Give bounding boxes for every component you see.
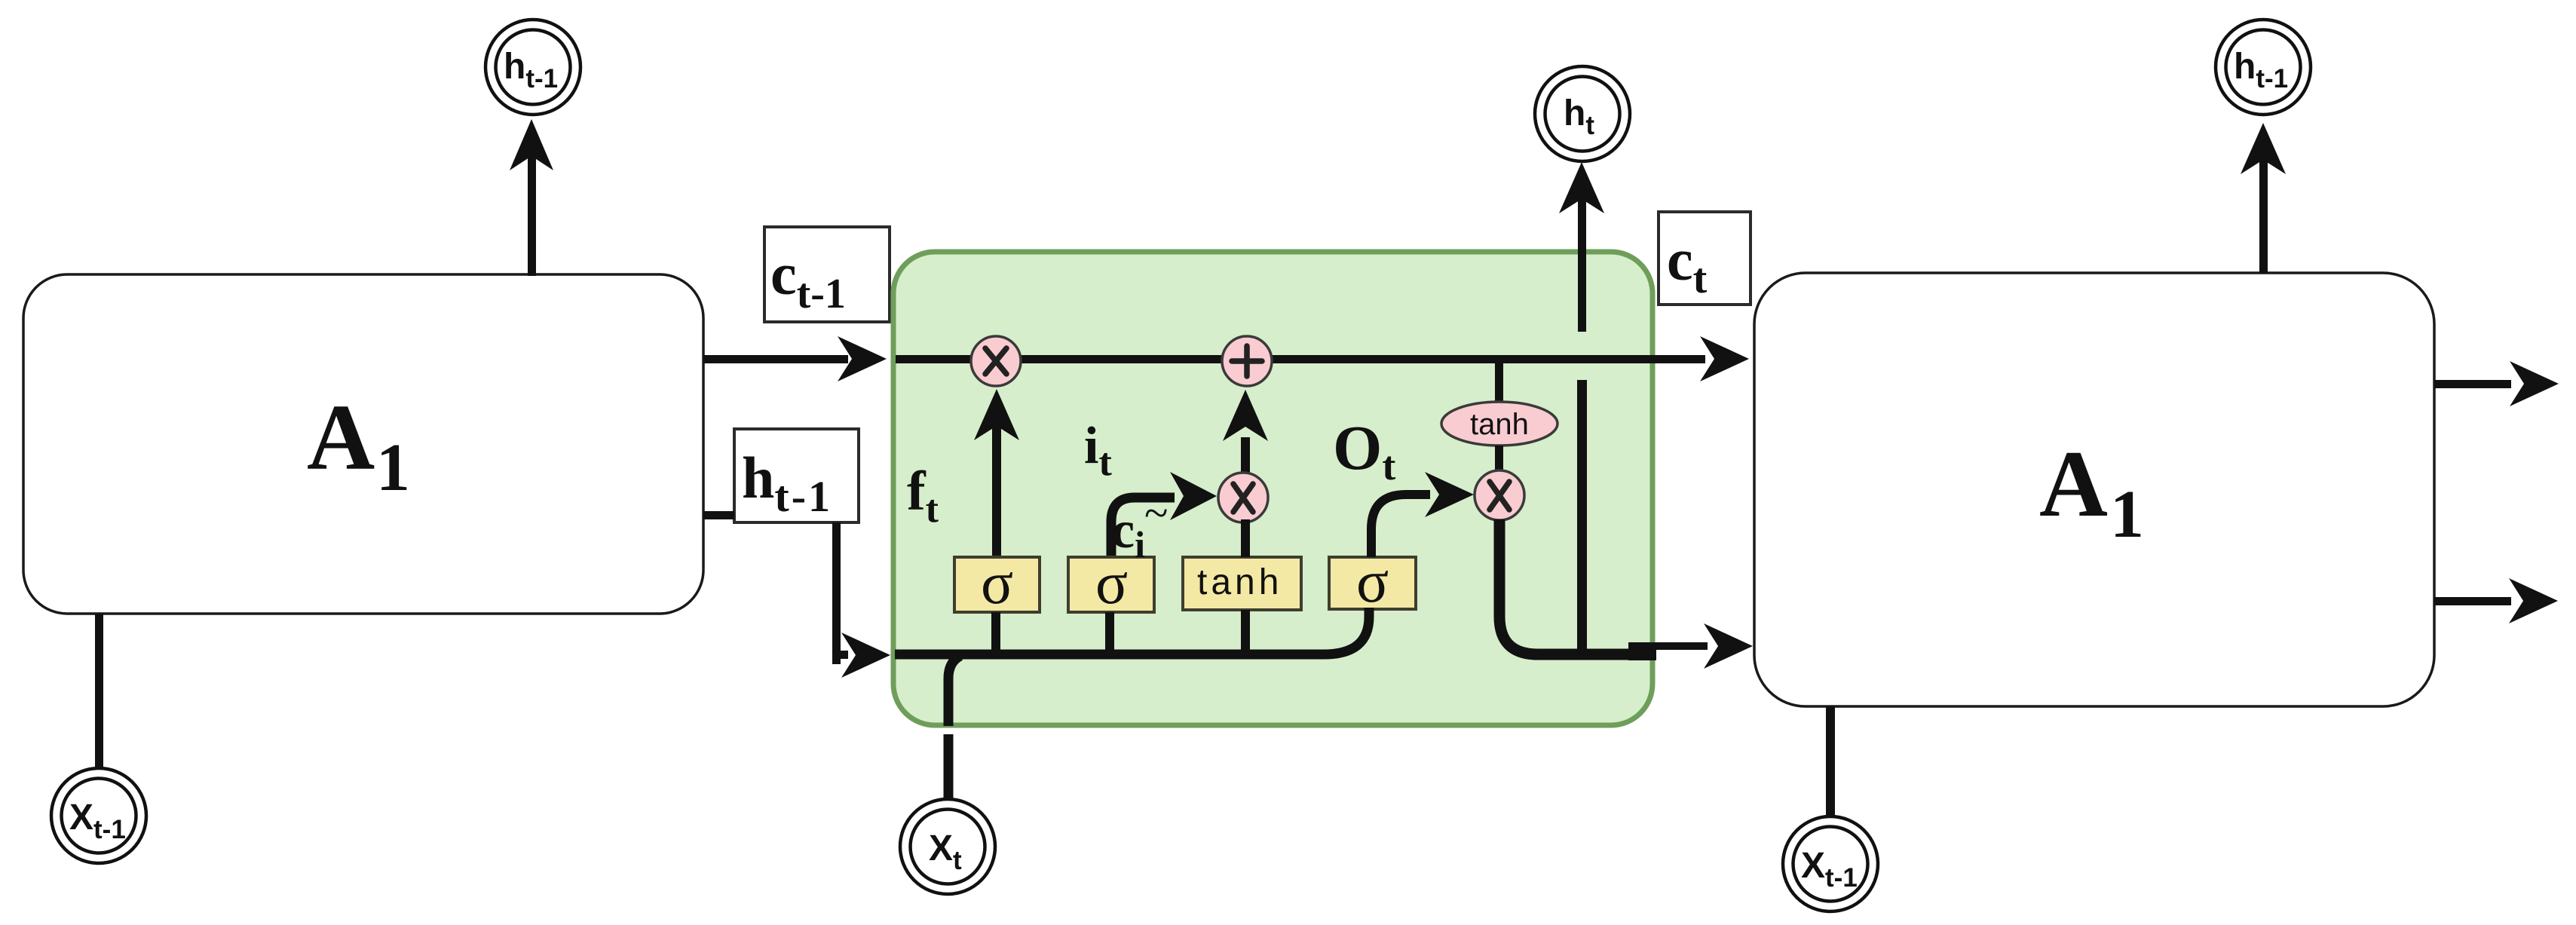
node h_t-1 circle (right top)	[2216, 20, 2311, 115]
wire stem below sigma1	[991, 612, 1000, 654]
gate sigma box 2	[1068, 550, 1154, 617]
wire bottom h path inside cell	[895, 608, 1369, 654]
label box c_t-1	[764, 227, 890, 322]
wire curve from sigma3 to multiply3 with arrow	[1371, 472, 1474, 557]
svg-text:tanh: tanh	[1197, 562, 1282, 602]
label c~_i	[1111, 489, 1168, 565]
node x_t-1 circle (right bottom)	[1783, 816, 1878, 911]
svg-text:σ: σ	[1356, 549, 1389, 615]
operator multiply circle 1	[971, 336, 1021, 386]
wire h output arrow into right block	[1628, 623, 1753, 669]
wire x_t-1 input (right block bottom)	[1826, 706, 1835, 816]
wire h_t branch up upper segment with arrow	[1559, 162, 1604, 332]
svg-text:1: 1	[376, 430, 410, 505]
gate tanh box	[1183, 557, 1301, 610]
wire output arrow right 1	[2434, 361, 2559, 406]
svg-text:σ: σ	[1095, 550, 1128, 617]
node h_t circle	[1535, 66, 1630, 161]
operator multiply circle 2	[1218, 473, 1268, 522]
wire arrow multiply2 to plus	[1223, 390, 1268, 475]
wire f_t arrow from sigma1 to multiply1	[974, 389, 1019, 558]
gate sigma box 3	[1329, 549, 1416, 615]
wire stub from left block to h_t-1 label	[703, 511, 734, 519]
wire h_t-1 output arrow (left block top)	[510, 119, 553, 276]
wire h_t-1 down and arrow into cell	[832, 522, 890, 678]
wire c_t-1 arrow into cell	[703, 336, 887, 381]
operator multiply circle 3	[1475, 470, 1524, 520]
wire x_t-1 input (left block bottom)	[95, 614, 103, 769]
node x_t circle	[900, 799, 995, 894]
svg-text:tanh: tanh	[1470, 408, 1529, 441]
wire multiply3 output down and right	[1499, 519, 1656, 654]
wire x_t branch down	[948, 656, 960, 726]
block A1 left	[23, 274, 703, 614]
wire stem c-line to tanh ellipse	[1495, 361, 1503, 403]
wire thick exit stub	[1628, 642, 1656, 660]
block A1 right	[1754, 273, 2434, 706]
label box c_t	[1659, 212, 1751, 305]
wire cell-state c line	[896, 336, 1749, 381]
wire curve from sigma2 to multiply2 with arrow	[1111, 472, 1217, 558]
wire h_t-1 output arrow (right block top)	[2241, 123, 2286, 273]
svg-text:σ: σ	[981, 550, 1013, 617]
wire stem below sigma2	[1105, 612, 1114, 654]
node x_t-1 circle (left bottom)	[51, 768, 146, 863]
svg-text:~: ~	[1144, 489, 1168, 538]
node h_t-1 circle (left top)	[485, 20, 580, 115]
wire stem tanh ellipse to multiply3	[1495, 446, 1503, 473]
wire stem above tanh box to multiply2	[1241, 519, 1250, 557]
gate sigma box 1	[954, 550, 1040, 617]
svg-text:A: A	[307, 386, 375, 490]
LSTM cell green box	[893, 252, 1652, 725]
wire output arrow right 2	[2434, 578, 2558, 623]
wire h_t branch up lower segment	[1577, 380, 1587, 659]
svg-text:1: 1	[2110, 477, 2144, 552]
operator plus circle	[1222, 336, 1272, 386]
svg-text:A: A	[2039, 432, 2108, 537]
label box h_t-1	[734, 429, 859, 522]
wire stem below tanh box	[1241, 610, 1250, 654]
operator tanh ellipse	[1441, 402, 1558, 446]
